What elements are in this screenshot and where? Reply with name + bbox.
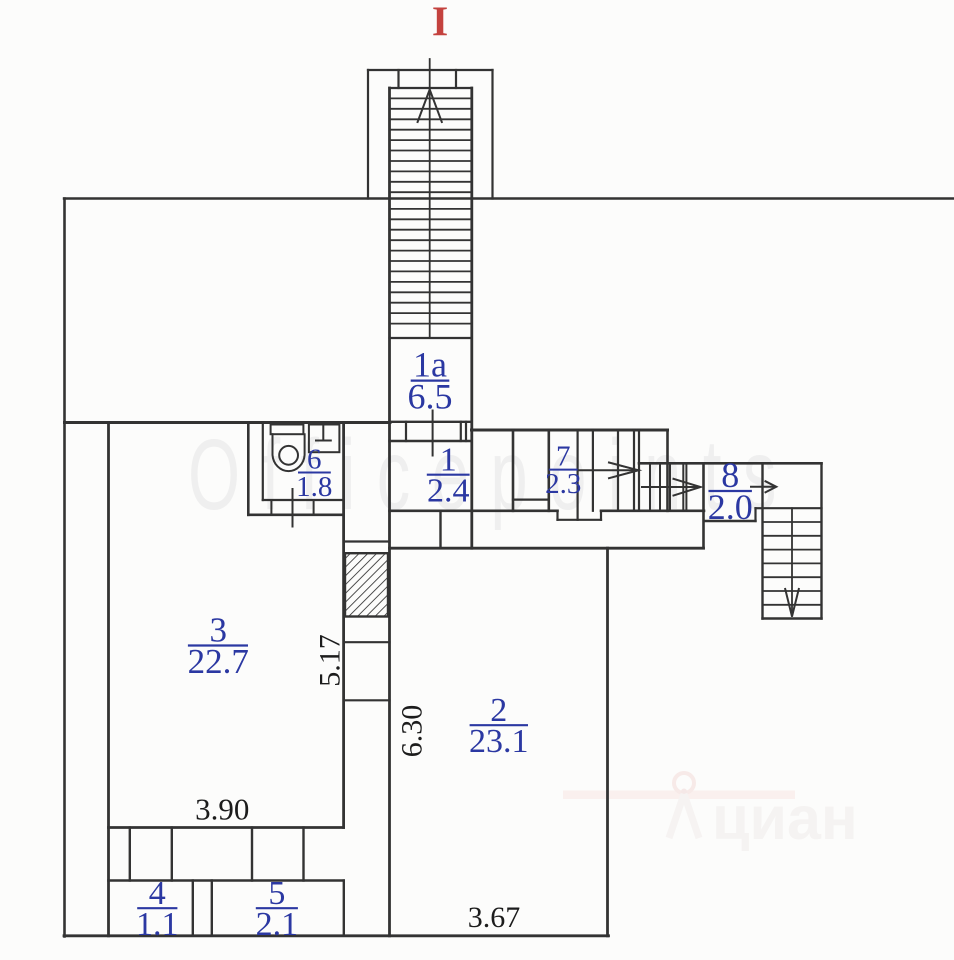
bathroom outer bottom <box>248 513 343 516</box>
svg-text:2.4: 2.4 <box>427 472 470 509</box>
watermark cian pin legs <box>669 794 699 838</box>
top staircase up arrowhead <box>418 90 442 123</box>
1a band dividers <box>405 422 407 441</box>
blue room labels <box>136 344 753 943</box>
svg-text:I: I <box>432 0 448 46</box>
arrow A corridor <box>578 469 637 471</box>
1a bottom wall band <box>390 421 472 423</box>
lower landing top line y=463.3 <box>639 462 822 465</box>
top staircase bottom of treads / 1a top <box>390 337 472 339</box>
top staircase center line <box>429 59 431 338</box>
svg-text:6.30: 6.30 <box>396 705 429 758</box>
room 2 top wall <box>390 547 704 550</box>
corridor verticals <box>512 430 515 511</box>
top staircase outer box <box>368 69 493 71</box>
bathroom inner left wall <box>262 423 264 501</box>
vestibule vertical below room1 <box>439 511 441 548</box>
closet bottom between corridor verticals <box>513 499 549 501</box>
room 8 right wall / stair left wall <box>761 463 763 618</box>
sink box <box>309 425 340 453</box>
wall: corridor top y=430 <box>472 429 668 432</box>
top staircase entry notch verticals <box>397 70 399 88</box>
wall: interior horizontal y=422 left section <box>65 421 391 424</box>
room 3 bottom wall <box>109 826 344 829</box>
top staircase treads <box>390 98 472 323</box>
wall: long vertical x=471.8 (stair right / room1 right) <box>470 88 473 548</box>
svg-text:6.5: 6.5 <box>408 377 453 417</box>
toilet tank <box>271 425 304 435</box>
wall: main upper horizontal y=198 full width <box>64 197 954 199</box>
right stair center line <box>791 508 793 616</box>
room 3 left wall <box>107 423 110 936</box>
toilet bowl <box>273 434 305 471</box>
svg-text:23.1: 23.1 <box>469 723 529 760</box>
watermark cian pin dot <box>681 789 687 795</box>
svg-text:3.67: 3.67 <box>468 901 521 934</box>
corridor bottom wall right segment <box>601 509 704 512</box>
bathroom inner bottom <box>263 499 344 501</box>
label 6 leader line <box>292 489 294 527</box>
room 8 step up to stairs <box>754 508 756 521</box>
svg-text:5.17: 5.17 <box>314 634 347 687</box>
lower landing step verticals <box>649 463 651 511</box>
wall: outer bottom y=936 <box>64 934 609 937</box>
door boxes below room 3 <box>129 828 131 881</box>
right stairs top line <box>756 507 822 509</box>
watermark pink band <box>563 791 795 800</box>
black dimension texts <box>195 634 520 934</box>
room 3 lower band line y=880 <box>109 879 344 882</box>
right stair box right wall <box>820 463 822 618</box>
wall: long vertical x=389.5 (stair left / room1 left / room2 left) <box>388 88 391 936</box>
top staircase tread box top <box>390 87 472 89</box>
rooms 4/5 dividers <box>192 881 194 936</box>
svg-text:22.7: 22.7 <box>188 642 249 681</box>
watermark cian pin ring <box>674 773 694 793</box>
bathroom door ticks <box>270 500 272 515</box>
right stair treads <box>763 522 822 605</box>
cavity top line <box>344 540 390 542</box>
sink faucet <box>316 425 331 441</box>
svg-text:циан: циан <box>712 784 858 852</box>
bathroom outer left wall <box>247 423 250 515</box>
arrow C room 8 <box>751 486 774 488</box>
room 8 bottom wall <box>704 520 756 522</box>
svg-text:1.8: 1.8 <box>296 471 332 503</box>
room 1 / corridor bottom wall <box>390 509 558 512</box>
label 1a leader line <box>432 411 434 456</box>
toilet seat circle <box>279 446 298 465</box>
right stair down arrowhead <box>785 589 799 617</box>
svg-text:3.90: 3.90 <box>195 792 249 827</box>
vertical connector right of landing x=703.5 <box>702 463 705 548</box>
svg-text:2.1: 2.1 <box>256 906 299 943</box>
corridor bottom notch <box>556 511 558 520</box>
svg-text:2.3: 2.3 <box>545 468 581 500</box>
room 2 right wall <box>606 548 609 936</box>
svg-text:2.0: 2.0 <box>708 487 753 527</box>
room 3 right wall <box>342 423 345 828</box>
arrow B landing <box>642 486 699 488</box>
right stair box bottom <box>763 617 822 619</box>
wall: outer left vertical x=64 <box>63 199 66 937</box>
svg-text:1.1: 1.1 <box>136 906 179 943</box>
cavity divider lines <box>344 641 390 643</box>
